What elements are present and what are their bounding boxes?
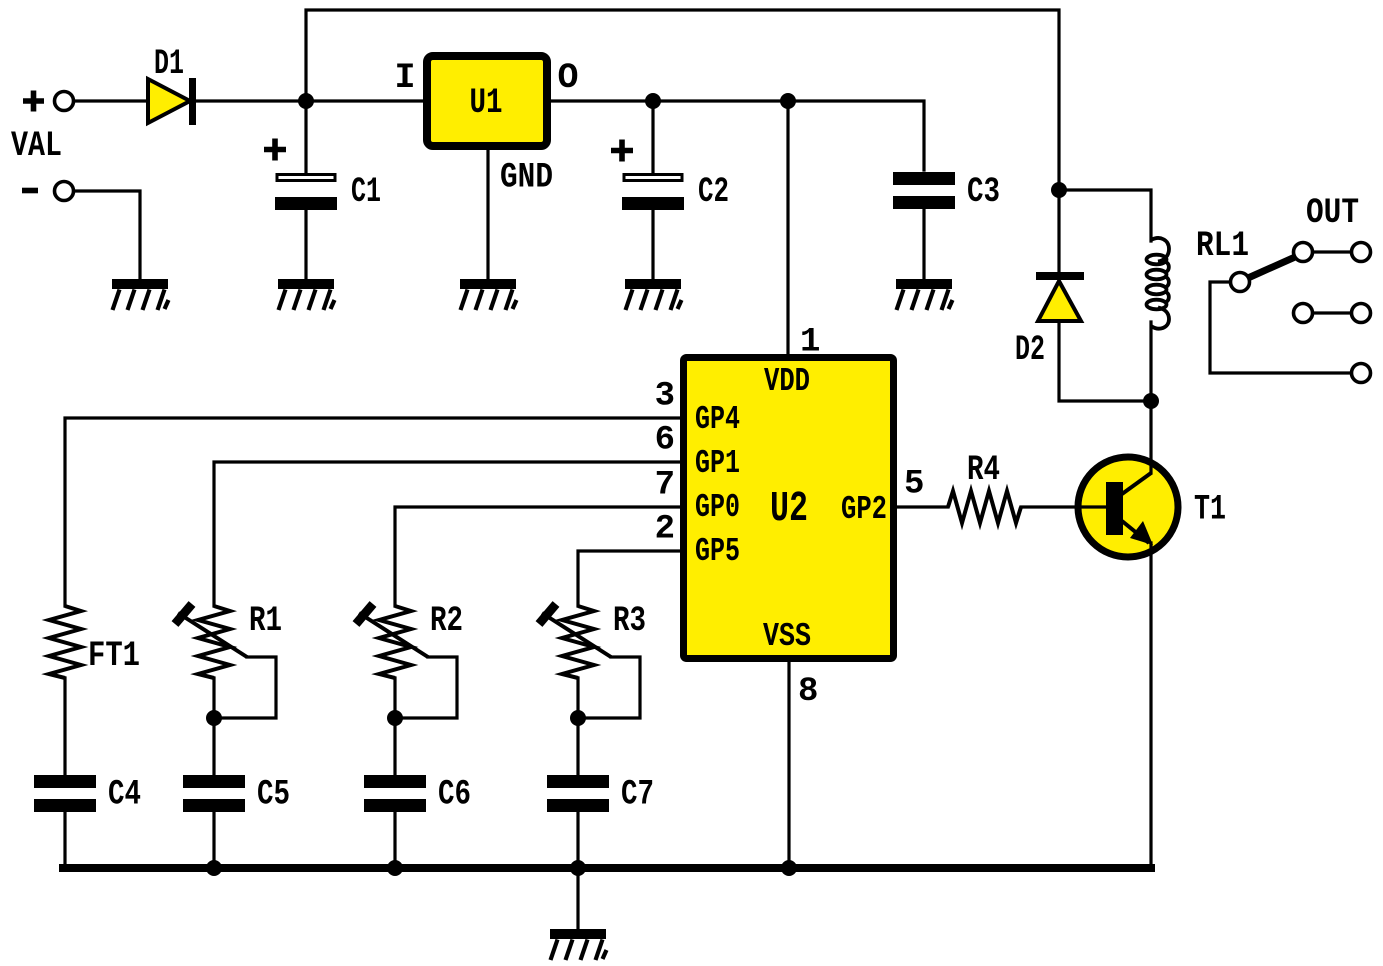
svg-text:D1: D1	[154, 44, 184, 84]
wire - terminal to ground	[74, 191, 140, 279]
wire R3 bottom to node	[576, 678, 579, 718]
svg-text:U1: U1	[470, 83, 503, 123]
wire C2 to ground	[651, 210, 654, 279]
svg-text:7: 7	[655, 467, 675, 505]
capacitor C6	[364, 775, 426, 812]
wire D1 cathode to node	[196, 99, 306, 102]
wire node to relay coil top	[1059, 190, 1151, 241]
trimmer wiper R3	[542, 613, 611, 657]
svg-text:VSS: VSS	[763, 618, 811, 655]
resistor R2	[379, 606, 411, 678]
wire C5 to bus	[212, 813, 215, 868]
resistor FT1	[49, 606, 81, 678]
svg-text:3: 3	[655, 378, 675, 416]
label C2 polarity +	[611, 140, 633, 162]
svg-text:VDD: VDD	[764, 363, 810, 400]
wire T1 emitter down to bus	[1149, 543, 1152, 868]
node C5 bus junction	[206, 860, 222, 876]
svg-text:GP5: GP5	[695, 533, 740, 570]
wire C1 to ground	[304, 210, 307, 279]
svg-text:C2: C2	[698, 172, 729, 212]
wire node to U1 input	[306, 99, 423, 102]
ground under C2	[625, 279, 682, 310]
capacitor C4	[34, 775, 96, 812]
svg-text:R3: R3	[613, 601, 646, 641]
wire FT1 to C4	[63, 678, 66, 775]
svg-text:R4: R4	[967, 450, 1000, 490]
label + polarity	[23, 91, 44, 112]
wire VDD rail to U2 pin 1	[786, 101, 789, 354]
wire + terminal to D1 anode	[74, 99, 148, 102]
svg-text:GP2: GP2	[841, 491, 887, 528]
wire ground bus	[63, 864, 1151, 872]
wire middle contact pair	[1313, 311, 1350, 314]
regulator U1	[427, 56, 547, 146]
node relay/collector junction	[1143, 393, 1159, 409]
wire U1 output rail to C2 C3 VDD	[551, 101, 924, 170]
node C2 junction	[645, 93, 661, 109]
svg-text:R2: R2	[430, 601, 463, 641]
label C1 polarity +	[264, 139, 286, 161]
node R1 wiper junction	[206, 710, 222, 726]
svg-text:R1: R1	[249, 601, 282, 641]
node VSS bus junction	[781, 860, 797, 876]
resistor R4	[948, 491, 1021, 523]
capacitor C2	[622, 175, 684, 211]
wire U1 GND to ground	[486, 150, 489, 279]
terminal + VAL	[55, 92, 74, 111]
OUT terminal top right	[1352, 243, 1371, 262]
transistor T1	[1078, 457, 1178, 557]
wire node down to C1	[304, 101, 307, 174]
wire node to C6	[393, 718, 396, 775]
svg-text:RL1: RL1	[1196, 226, 1249, 266]
wire node down to D2 cathode	[1057, 190, 1060, 273]
relay switch lever	[1248, 257, 1295, 278]
wire U2 VSS to bus	[787, 662, 790, 868]
svg-text:D2: D2	[1015, 330, 1045, 370]
svg-text:GP0: GP0	[695, 489, 740, 526]
ground under C1	[278, 279, 335, 310]
svg-text:C1: C1	[351, 172, 381, 212]
node VDD junction	[780, 93, 796, 109]
svg-text:C3: C3	[967, 172, 1000, 212]
capacitor C7	[547, 775, 609, 812]
wiper tail R1	[214, 657, 276, 718]
diode D2	[1036, 272, 1084, 321]
wire C4 to bus	[63, 813, 66, 866]
OUT terminal bottom right	[1352, 364, 1371, 383]
svg-text:5: 5	[904, 466, 924, 504]
wire C3 to ground	[922, 210, 925, 279]
relay NO contact top left	[1294, 243, 1313, 262]
relay switch common terminal	[1231, 273, 1250, 292]
wiper tail R2	[395, 657, 457, 718]
svg-text:T1: T1	[1194, 490, 1226, 530]
svg-text:C5: C5	[257, 775, 290, 815]
wire node to C7	[576, 718, 579, 775]
svg-text:I: I	[394, 58, 415, 98]
node D2/relay junction	[1051, 182, 1067, 198]
relay coil RL1	[1147, 238, 1170, 329]
capacitor C1	[275, 175, 337, 211]
ground under U1	[460, 279, 517, 310]
resistor R1	[198, 606, 230, 678]
wire R4 to T1 base	[1021, 505, 1080, 508]
svg-text:VAL: VAL	[11, 126, 62, 166]
wire top contact pair	[1313, 250, 1350, 253]
terminal - VAL	[55, 182, 74, 201]
capacitor C5	[183, 775, 245, 812]
wire relay coil bottom to node	[1149, 322, 1152, 401]
wire top rail from input node to D2/relay branch	[306, 10, 1059, 190]
node R2 wiper junction	[387, 710, 403, 726]
svg-text:C4: C4	[108, 775, 141, 815]
wire C7 to bus	[576, 813, 579, 868]
node C7 bus junction	[570, 860, 586, 876]
svg-text:C7: C7	[621, 775, 654, 815]
trimmer wiper R1	[178, 613, 247, 657]
wire R1 bottom to node	[212, 678, 215, 718]
svg-text:8: 8	[798, 673, 818, 711]
wire node to C5	[212, 718, 215, 775]
IC U2	[684, 358, 894, 659]
svg-text:6: 6	[655, 422, 675, 460]
wiper tail R3	[578, 657, 640, 718]
wire GP1 to R1	[214, 462, 680, 606]
wire GP0 to R2	[395, 507, 680, 606]
svg-text:2: 2	[655, 511, 675, 549]
wire bus to bottom ground	[576, 868, 579, 929]
ground under C3	[896, 279, 953, 310]
node D1/C1 junction	[298, 93, 314, 109]
node C6 bus junction	[387, 860, 403, 876]
svg-text:O: O	[557, 58, 578, 98]
label - polarity	[22, 188, 38, 194]
svg-text:FT1: FT1	[88, 636, 140, 676]
svg-text:GND: GND	[500, 158, 553, 198]
svg-text:GP4: GP4	[695, 401, 740, 438]
svg-text:OUT: OUT	[1306, 193, 1359, 233]
wire GP2 to R4	[897, 505, 948, 508]
ground under - terminal	[112, 279, 169, 310]
svg-text:C6: C6	[438, 775, 471, 815]
wire C6 to bus	[393, 813, 396, 868]
wire GP4 to FT1	[65, 418, 680, 606]
OUT terminal middle right	[1352, 304, 1371, 323]
svg-text:U2: U2	[770, 484, 808, 533]
wire D2 anode to relay node	[1059, 321, 1151, 401]
wire T1 collector up to node	[1149, 401, 1152, 473]
resistor R3	[562, 606, 594, 678]
wire node down to C2	[651, 101, 654, 174]
diode D1	[148, 78, 196, 125]
capacitor C3	[893, 172, 955, 209]
wire relay common to bottom OUT terminal	[1210, 282, 1350, 373]
relay NC contact middle left	[1294, 304, 1313, 323]
svg-text:GP1: GP1	[695, 445, 740, 482]
ground bottom	[550, 929, 607, 960]
wire R2 bottom to node	[393, 678, 396, 718]
node R3 wiper junction	[570, 710, 586, 726]
trimmer wiper R2	[359, 613, 428, 657]
wire GP5 to R3	[578, 551, 680, 606]
